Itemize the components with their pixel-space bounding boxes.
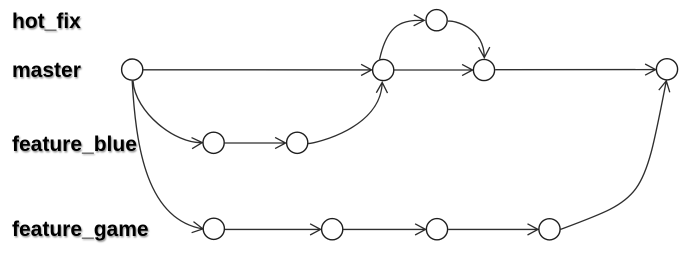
wire branch C1 to G1 [132,81,203,229]
wire G2 to G3 [343,228,425,230]
node blue B1 [203,132,224,153]
label feature_blue [12,133,137,157]
label hot_fix [12,10,81,34]
node game G2 [322,219,343,240]
node game G4 [539,219,560,240]
wire merge H1 to C3 [448,21,484,58]
label feature_game [12,218,149,242]
wire master C1 to C2 [143,69,371,71]
wire G3 to G4 [448,228,538,230]
wire merge B2 to C2 [308,82,382,143]
node game G1 [203,218,224,239]
wire master C3 to C4 [495,69,655,71]
wire master C2 to C3 [394,69,472,71]
node master C4 [656,59,677,80]
node hotfix H1 [426,10,447,31]
node master C1 [122,59,143,80]
wire branch C1 to B1 [133,81,202,143]
wire merge G4 to C4 [561,81,667,230]
node master C2 [373,59,394,80]
label master [12,59,81,83]
wire G1 to G2 [225,228,321,230]
wire branch C2 to H1 [380,20,425,59]
wire B1 to B2 [225,142,286,144]
node blue B2 [287,132,308,153]
node game G3 [426,219,447,240]
node master C3 [473,59,494,80]
